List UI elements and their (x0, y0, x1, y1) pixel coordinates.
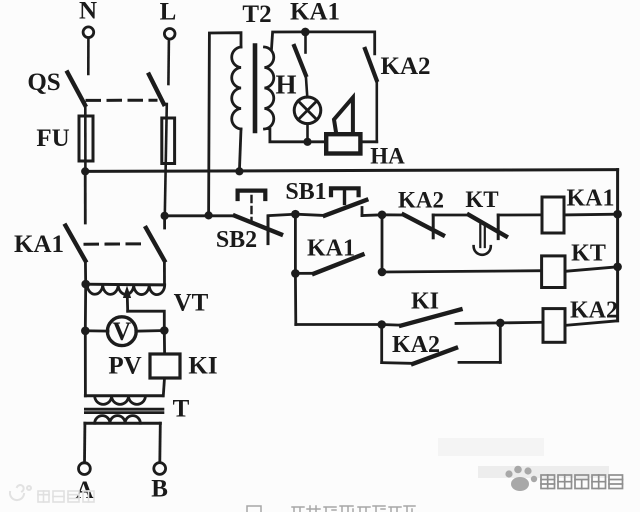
svg-text:KT: KT (465, 187, 498, 212)
node: T2 primary on N bus (235, 167, 243, 175)
node: voltmeter row right (160, 326, 169, 335)
wire L bus down to KA1 pole 2 (163, 216, 166, 228)
lamp H cross (298, 101, 317, 120)
contact KA1 blade (lamp branch) (294, 46, 306, 75)
wire KT contact to KA1 coil (498, 213, 542, 216)
svg-text:H: H (275, 70, 296, 100)
node: lamp branch junction (301, 28, 310, 37)
wire node to SB1 (295, 214, 325, 215)
wire T2 primary top lead (209, 33, 241, 216)
contact KA2 blade (NO parallel) (413, 348, 456, 364)
node: L bus junction below right fuse (161, 212, 169, 220)
transformer T core lines (85, 409, 162, 412)
wire: vertical from SB1/KA2 node down to KA1 row (381, 215, 384, 272)
wire SB2 to node (268, 214, 295, 216)
terminal L circle (164, 29, 175, 40)
transformer T primary line (85, 394, 162, 397)
watermark: paw logo bottom right (505, 466, 537, 491)
contact KA1 blade pole 1 (66, 226, 86, 261)
svg-text:KI: KI (188, 353, 217, 380)
svg-text:N: N (79, 0, 97, 25)
svg-text:T2: T2 (242, 1, 271, 28)
timed contact KT blade (NC delayed) (469, 215, 506, 237)
svg-text:KT: KT (571, 241, 606, 267)
wire node down to KI coil (163, 331, 166, 355)
wire T2 primary bottom lead (239, 129, 241, 171)
wire: vertical from SB2/SB1 node down to KA1 row (294, 214, 297, 273)
wire L lead (167, 40, 170, 84)
contact KA2 blade (bell branch) (365, 49, 377, 80)
watermark: faint smudge band (438, 438, 544, 456)
watermark: bottom-left logo (10, 485, 31, 500)
autotransformer VT winding line (86, 283, 165, 287)
wire T2 secondary bottom lead (268, 129, 326, 142)
autotransformer VT winding arcs (87, 284, 165, 294)
wire KI coil to T primary right (163, 378, 164, 396)
watermark: bottom-right site name glyphs (541, 475, 623, 489)
relay coil KA2 (543, 309, 565, 343)
node: voltmeter row left (81, 327, 90, 336)
wire T secondary right lead (158, 423, 161, 462)
timed contact KT delay cup (474, 246, 491, 255)
terminal A circle (79, 463, 91, 475)
wire node to KI contact (382, 323, 402, 327)
VT wiper arrowhead (123, 286, 131, 299)
node: KI/KA2 branch right junction (496, 319, 505, 328)
transformer T primary arcs (95, 396, 146, 404)
pushbutton SB2 right stub (267, 216, 270, 243)
svg-text:V: V (112, 317, 131, 346)
wire through left fuse (84, 105, 87, 171)
node: SB2/SB1 junction (291, 210, 300, 219)
transformer T2 core bar (253, 46, 258, 132)
node: KA1 coil on rail (613, 210, 622, 219)
lamp H circle (294, 97, 321, 124)
node: KA1 self-hold row left (291, 269, 300, 278)
wire N branch down to voltmeter row (84, 284, 87, 331)
wire lamp bottom lead (306, 124, 309, 142)
wire node to KA2 coil (500, 321, 543, 324)
wire node to voltmeter (85, 329, 108, 332)
svg-text:KA1: KA1 (307, 236, 355, 262)
relay coil KT (542, 256, 565, 288)
wire KA1 coil to rail (564, 213, 618, 216)
svg-text:PV: PV (108, 353, 141, 380)
wire KI row left segment (296, 323, 382, 326)
pushbutton SB2 cap (238, 191, 266, 199)
svg-text:KA2: KA2 (381, 53, 431, 80)
relay coil KA1 (542, 197, 564, 233)
transformer T2 secondary winding (265, 47, 274, 129)
node: KI row junction (377, 320, 386, 329)
wire top to KA2 branch corner (305, 32, 374, 54)
wire KA1 pole2 to VT right (163, 261, 166, 285)
node: N bus junction below left fuse (81, 167, 89, 175)
svg-text:QS: QS (27, 69, 60, 96)
svg-text:KA2: KA2 (398, 188, 444, 213)
bell HA striker triangle (334, 98, 353, 134)
wire blade to lamp (306, 75, 308, 97)
svg-text:KA2: KA2 (392, 332, 440, 358)
VT wiper arrow shaft (126, 294, 129, 311)
svg-text:SB1: SB1 (285, 179, 326, 205)
wire branch lower right segment (459, 361, 500, 364)
transformer T2 primary winding (232, 47, 241, 129)
node: lamp to HA line (303, 138, 311, 146)
wire HA row right segment (361, 140, 377, 143)
svg-text:VT: VT (174, 290, 209, 317)
svg-text:L: L (160, 0, 177, 26)
switch QS blade pole 1 (68, 73, 86, 106)
timed contact KT delay lines (480, 225, 485, 248)
pushbutton SB1 blade (NO) (325, 200, 367, 216)
wire: N bus (upper long horizontal) (85, 170, 617, 172)
wire N branch down to T primary left (84, 331, 87, 396)
bell HA body (326, 134, 360, 153)
wire KA2 branch lower vertical (375, 80, 378, 142)
wire KA2 to KT contact (433, 214, 469, 217)
contact KA1 upper stub (lamp branch) (304, 32, 307, 53)
node: VT left end (81, 280, 90, 289)
timed contact KT right stub (497, 215, 500, 239)
node: SB1/KA2 junction (378, 211, 387, 220)
contact KI blade (NO) (401, 310, 461, 326)
wire: right vertical rail (616, 170, 619, 321)
wire KI contact right (456, 321, 500, 324)
wire N lead (87, 38, 90, 74)
contact KA1 blade (NO self-hold) (314, 255, 363, 274)
wire KT coil to rail (565, 267, 618, 272)
wire: branch right vertical up (499, 323, 502, 363)
wire branch lower left segment (382, 361, 414, 365)
svg-text:KA1: KA1 (290, 0, 340, 26)
switch QS dashed link (87, 99, 156, 102)
relay coil KI body (150, 354, 180, 378)
svg-text:FU: FU (36, 125, 69, 152)
wire KA1 pole1 to VT left (84, 261, 87, 284)
svg-text:B: B (151, 476, 168, 503)
svg-text:KA2: KA2 (570, 298, 618, 324)
fuse FU body (N pole) (79, 116, 93, 161)
transformer T secondary line (85, 422, 160, 425)
wire: KA2 parallel branch left vertical (380, 325, 383, 363)
transformer T secondary arcs (95, 416, 141, 424)
node: KT coil on rail (613, 263, 622, 272)
wire: L control bus to SB2 (165, 214, 235, 217)
fuse FU body (L pole) (162, 118, 175, 164)
pushbutton SB2 dashed stem (250, 196, 252, 220)
svg-text:KA1: KA1 (567, 186, 615, 212)
contact KA1 dashed link (85, 242, 145, 245)
contact KA1 blade pole 2 (146, 228, 164, 261)
contact KA2 blade (NC) (404, 215, 444, 236)
svg-text:KA1: KA1 (14, 231, 64, 258)
wire voltmeter to right node (136, 329, 165, 333)
wire T2 secondary top lead (272, 32, 306, 49)
caption: clipped figure title glyph boxes (247, 506, 415, 512)
wire node to KA1 contact (295, 272, 315, 275)
wire SB1 to node (362, 213, 382, 216)
terminal B circle (154, 463, 166, 475)
wire N bus down to KA1 pole 1 (84, 171, 87, 223)
node: T2 left lead on L bus (205, 211, 213, 219)
node: KA1 row right (378, 268, 387, 277)
contact KA2 right stub (432, 215, 435, 238)
pushbutton SB2 blade (NC) (235, 216, 281, 235)
pushbutton SB1 right stub (361, 208, 364, 216)
wire T secondary left lead (83, 423, 86, 463)
watermark: bottom-left text glyphs (38, 491, 94, 502)
wire node to KA2 contact (382, 213, 404, 216)
voltmeter PV circle (107, 317, 136, 346)
terminal N circle (83, 27, 94, 38)
wire wiper to right branch (128, 311, 165, 330)
switch QS blade pole 2 (149, 75, 164, 104)
svg-text:SB2: SB2 (216, 227, 257, 253)
pushbutton SB1 cap (331, 188, 359, 195)
wire through right fuse (165, 104, 167, 216)
svg-text:HA: HA (370, 144, 405, 169)
wire KA1 row to KT coil (382, 271, 542, 272)
svg-text:KI: KI (411, 289, 439, 315)
wire KA2 coil to rail (565, 321, 618, 326)
pushbutton SB1 stem (343, 190, 346, 204)
wire: vertical down to KI row (294, 273, 297, 324)
svg-text:T: T (173, 396, 190, 423)
